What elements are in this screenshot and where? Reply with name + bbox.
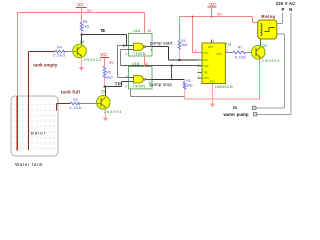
resistor R3 — [57, 103, 71, 105]
svg-text:OUT: OUT — [217, 52, 223, 56]
svg-text:VCC: VCC — [209, 2, 217, 7]
svg-text:U1A: U1A — [133, 29, 141, 33]
svg-text:7400N: 7400N — [133, 52, 146, 56]
wire U1A VCC pin — [144, 13, 146, 34]
svg-text:230 V AC: 230 V AC — [276, 1, 296, 6]
ground net wire — [185, 98, 260, 100]
svg-text:5V: 5V — [109, 61, 114, 65]
wire mains N — [290, 13, 292, 115]
svg-text:1kΩ: 1kΩ — [186, 83, 193, 87]
wire mains P — [282, 13, 284, 24]
connector pad 2 — [253, 113, 256, 116]
svg-text:R4: R4 — [57, 46, 62, 50]
wire Q3 collector — [260, 39, 262, 46]
svg-text:R3: R3 — [73, 98, 78, 102]
wire Q2 collector — [105, 87, 107, 96]
resistor R2 — [184, 80, 186, 82]
svg-text:5V: 5V — [87, 9, 92, 13]
svg-text:Relay: Relay — [261, 14, 276, 20]
svg-text:GND: GND — [209, 79, 215, 83]
svg-text:5V: 5V — [217, 12, 222, 16]
svg-text:U1B: U1B — [132, 62, 140, 66]
wire U1B VCC link — [144, 56, 146, 66]
svg-text:pump start: pump start — [150, 40, 173, 45]
wire Q1 base — [65, 51, 78, 53]
svg-text:2N3904: 2N3904 — [262, 59, 280, 63]
svg-text:TE: TE — [101, 28, 106, 33]
electrode tank empty — [28, 52, 30, 151]
svg-text:1kΩ: 1kΩ — [181, 43, 188, 47]
wire U1B ground pin — [130, 89, 132, 97]
svg-text:14: 14 — [147, 29, 151, 33]
gate U1B box — [129, 66, 153, 89]
svg-text:P: P — [282, 7, 285, 12]
svg-text:1kΩ: 1kΩ — [83, 24, 90, 28]
svg-text:to: to — [233, 105, 237, 110]
svg-text:6.2kΩ: 6.2kΩ — [235, 56, 246, 60]
transistor Q2 — [97, 96, 111, 110]
ground Q1 — [81, 58, 83, 67]
node gate input junction — [123, 45, 125, 47]
svg-text:2.2kΩ: 2.2kΩ — [53, 54, 65, 58]
wire pump stop — [152, 79, 185, 81]
wire 555 VCC — [192, 17, 194, 53]
node TE — [81, 34, 83, 36]
svg-text:2N3904: 2N3904 — [104, 110, 122, 114]
svg-text:pump stop: pump stop — [150, 82, 173, 87]
svg-text:VCC: VCC — [77, 2, 85, 7]
svg-text:DIS: DIS — [203, 58, 208, 62]
svg-text:TRI: TRI — [203, 70, 207, 74]
svg-text:7400N: 7400N — [133, 85, 146, 89]
resistor R1 — [179, 17, 181, 41]
svg-text:N: N — [289, 7, 292, 12]
svg-text:RST: RST — [208, 45, 214, 49]
electrode tank full — [56, 104, 58, 111]
wire VCC rail right — [180, 16, 253, 18]
relay K1 — [258, 20, 277, 39]
transistor Q1 — [73, 44, 87, 58]
svg-text:water: water — [31, 131, 46, 136]
op-amp U3 LM555CM — [202, 43, 225, 84]
ground Q2 — [105, 109, 107, 118]
svg-text:R7: R7 — [238, 45, 243, 49]
svg-text:U3: U3 — [226, 42, 231, 46]
electrode supply in tank — [16, 96, 18, 151]
svg-text:2N3904: 2N3904 — [84, 58, 102, 62]
transistor Q3 — [251, 46, 265, 60]
wire latch feedback left — [118, 45, 124, 47]
connector pad 1 — [253, 106, 257, 109]
svg-text:tank empty: tank empty — [33, 62, 58, 67]
wire relay contact out — [277, 33, 285, 35]
wire TE — [82, 34, 127, 36]
gate U1A box — [129, 34, 153, 57]
gate U1B 7400N — [129, 77, 134, 79]
svg-text:water pump: water pump — [223, 112, 249, 117]
svg-text:VCC: VCC — [203, 51, 209, 55]
ground 555 — [212, 84, 214, 104]
svg-text:1kΩ: 1kΩ — [106, 76, 113, 80]
wire U1A input2 feedback — [121, 49, 134, 51]
svg-text:Q3: Q3 — [262, 44, 267, 48]
svg-text:tank full: tank full — [61, 89, 80, 94]
wire left supply drop — [17, 13, 19, 97]
resistor R4 — [55, 50, 65, 53]
svg-text:TP: TP — [115, 82, 121, 87]
wire VCC rail left — [18, 12, 145, 14]
wire Q3 emitter — [259, 58, 261, 99]
svg-text:6.2kΩ: 6.2kΩ — [70, 106, 82, 110]
svg-text:LM555CM: LM555CM — [215, 85, 233, 89]
svg-text:Q1: Q1 — [80, 40, 85, 44]
wire TP — [105, 86, 122, 88]
svg-text:Water tank: Water tank — [15, 162, 43, 167]
wire Q1 collector — [81, 35, 83, 45]
node TP — [104, 86, 106, 88]
wire pump start — [152, 46, 169, 48]
water tank — [11, 96, 58, 156]
resistor R5 — [81, 13, 83, 23]
resistor R6 — [103, 66, 106, 79]
resistor R7 — [230, 51, 233, 53]
svg-text:VCC: VCC — [100, 52, 108, 57]
wire tank empty — [29, 51, 56, 53]
wire latch cross up — [171, 66, 173, 80]
wire TE drop to gate — [126, 35, 128, 46]
wire Q2 base — [80, 103, 102, 105]
gate U1A 7400N — [129, 45, 134, 47]
wire cross link to THR — [121, 65, 203, 67]
svg-text:THR: THR — [203, 64, 208, 68]
svg-text:R6: R6 — [106, 71, 111, 75]
